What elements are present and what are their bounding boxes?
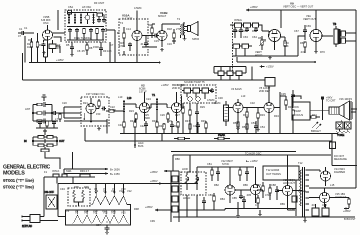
capacitor C13 (151, 34, 159, 38)
svg-text:R46: R46 (174, 124, 179, 128)
wire CRT grid (310, 98, 329, 120)
ground audio transformer (183, 37, 187, 41)
width coil box (330, 142, 336, 149)
svg-text:L15: L15 (330, 183, 335, 187)
svg-text:BRIGHT: BRIGHT (311, 129, 321, 133)
svg-text:R89: R89 (280, 202, 285, 206)
svg-text:OSC: OSC (43, 21, 49, 25)
svg-text:C28: C28 (180, 105, 185, 109)
value labels tuner area (18, 26, 114, 53)
dashed box tuner shield (65, 10, 106, 42)
wire bus to disc box (251, 67, 253, 81)
filter box B2 (227, 71, 233, 76)
wire string B feed (58, 216, 66, 218)
wire audio plate (162, 22, 184, 24)
tube V12A sync (225, 167, 235, 203)
svg-text:ON-OFF: ON-OFF (44, 190, 54, 194)
capacitor C33 vert (233, 27, 237, 38)
transformer T2 audio output (181, 24, 185, 39)
integrator box R32 (253, 23, 259, 27)
capacitor C9 below box (70, 42, 74, 57)
wire lattice feed down (45, 152, 73, 174)
junction dot AGC (134, 134, 144, 149)
pot R96 vert hold (194, 172, 199, 190)
wire video det drop (84, 128, 86, 141)
wire power verticals (44, 177, 73, 217)
wire video to peaking (84, 99, 99, 119)
svg-text:SOUND TRAP T5: SOUND TRAP T5 (184, 80, 205, 84)
capacitor C8 (101, 28, 105, 33)
integrator box R30 (234, 18, 242, 27)
B+ ladder (171, 171, 179, 222)
svg-text:1500: 1500 (110, 108, 116, 112)
svg-text:C97: C97 (96, 223, 101, 227)
label V15 (335, 192, 347, 199)
junction dots AC rail (49, 176, 93, 178)
svg-text:TRAP: TRAP (294, 109, 301, 113)
resistor R38 (304, 42, 306, 53)
svg-text:R47: R47 (185, 119, 190, 123)
svg-text:.005: .005 (246, 193, 252, 197)
svg-text:R18: R18 (167, 27, 172, 31)
svg-text:1ST VIDEO V11: 1ST VIDEO V11 (86, 92, 105, 96)
capacitor C2 (42, 40, 46, 57)
arrow +265 right (343, 207, 351, 213)
resistor R50a below disc (182, 103, 184, 134)
svg-text:T12: T12 (298, 161, 303, 165)
integrator box R31 (244, 23, 251, 27)
wire right frame (355, 10, 357, 188)
input filter top branch (33, 102, 52, 107)
svg-text:R68: R68 (300, 41, 305, 45)
svg-text:C45: C45 (167, 119, 172, 123)
B+ feed line 265 (64, 168, 120, 172)
svg-text:IN: IN (24, 139, 27, 143)
svg-text:.01: .01 (140, 42, 144, 46)
wire V13 plate to flyback (288, 191, 303, 211)
svg-text:V4: V4 (111, 189, 115, 193)
wire tuner out to bus (106, 30, 115, 40)
bus AGC y134 (120, 133, 265, 135)
transformer T13 flyback core (303, 167, 305, 217)
flyback secondary taps (306, 170, 310, 210)
ground vert out (314, 50, 318, 54)
svg-text:+265V: +265V (150, 179, 158, 183)
wire V15B plate lead (47, 25, 49, 47)
tube V14 damper (321, 167, 331, 186)
svg-text:R5: R5 (66, 43, 70, 47)
value labels vert section (234, 24, 325, 54)
ground mixer (42, 51, 46, 55)
resistor R70 (123, 120, 125, 134)
tube V3 (157, 92, 182, 121)
wire video box drop (106, 119, 108, 134)
transformer T3 vert output (333, 22, 356, 47)
resistor R100 (257, 182, 264, 198)
svg-text:R23: R23 (129, 109, 134, 113)
resistor R40 (59, 113, 61, 122)
svg-text:C69: C69 (306, 24, 311, 28)
svg-text:R52: R52 (242, 125, 247, 129)
svg-text:FOCUS: FOCUS (294, 113, 303, 117)
trim core 2 (196, 97, 201, 102)
wire disc internals (182, 88, 212, 99)
ground flyback (303, 217, 307, 223)
capacitor C60 (38, 120, 42, 125)
svg-text:270: 270 (176, 27, 181, 31)
resistor R5 box (97, 13, 103, 16)
wire HV line (309, 187, 356, 189)
resistor R1 (28, 38, 33, 63)
resistor R90 (80, 174, 90, 177)
tube V10B audio out (157, 24, 167, 47)
svg-text:V10: V10 (119, 189, 124, 193)
resistor R78 (246, 121, 248, 134)
wire hold feeds (187, 155, 212, 172)
svg-text:HOLD: HOLD (255, 53, 262, 57)
box drive control (292, 196, 297, 202)
svg-text:ION: ION (294, 105, 299, 109)
wire grid to box (53, 10, 66, 42)
label heater row2 (75, 211, 126, 215)
svg-text:C: C (255, 203, 257, 207)
resistor R102 (257, 195, 259, 209)
wire antenna input (24, 36, 26, 63)
wire left frame vertical (22, 53, 24, 80)
bus horiz top y155 (173, 154, 331, 156)
resistor R36 (280, 37, 286, 56)
capacitor C90 (216, 167, 220, 181)
svg-text:R33: R33 (260, 113, 265, 117)
sound lattice network (24, 129, 65, 154)
capacitor C6 (97, 18, 101, 23)
wire yoke drop (331, 134, 333, 166)
dashed box hold controls (181, 172, 206, 195)
svg-text:R31: R31 (243, 113, 248, 117)
svg-text:R84: R84 (220, 197, 225, 201)
resistor R45 (135, 112, 137, 123)
resistor R7 (49, 40, 60, 53)
pot R95 horiz hold (184, 172, 189, 190)
svg-text:470K: 470K (265, 193, 271, 197)
svg-text:C48: C48 (193, 124, 198, 128)
svg-text:R49: R49 (201, 119, 206, 123)
value labels power area (44, 169, 155, 227)
svg-text:MODELS: MODELS (3, 170, 25, 176)
svg-text:+265V: +265V (343, 209, 351, 213)
ground vert (268, 56, 272, 60)
svg-text:R98: R98 (134, 207, 139, 211)
svg-text:R87: R87 (256, 183, 261, 187)
resistor R8 below box (86, 42, 93, 55)
arrow +265 feed (145, 205, 171, 211)
capacitor C93 (275, 186, 279, 200)
coil L11 (146, 93, 158, 120)
wire osc coupling (235, 190, 251, 196)
capacitor C71 (170, 121, 174, 134)
bus 133 right extension (265, 133, 338, 135)
svg-text:1M: 1M (27, 45, 31, 49)
arrow 265 ladder feed (150, 170, 171, 174)
capacitor C72 (196, 122, 200, 134)
coil L3 (80, 14, 82, 25)
svg-text:V15: V15 (121, 211, 126, 215)
svg-text:SW1: SW1 (66, 169, 72, 173)
svg-text:9T001 (“T” line): 9T001 (“T” line) (3, 178, 34, 183)
ground V4 (236, 121, 240, 131)
dashed line vert section left (232, 22, 234, 73)
svg-text:MEASURE: MEASURE (334, 157, 347, 161)
svg-text:R86: R86 (243, 183, 248, 187)
bus +265 top (246, 5, 356, 11)
svg-text:C7: C7 (110, 43, 114, 47)
resistor R80 (310, 116, 320, 118)
flyback primary winding (300, 170, 302, 206)
video line y141 (85, 140, 332, 142)
svg-text:V11: V11 (84, 209, 89, 213)
capacitor C42 (101, 107, 106, 111)
svg-text:.03: .03 (311, 203, 315, 207)
wire sync left vertical (172, 155, 174, 171)
svg-text:T12 HORIZ: T12 HORIZ (266, 168, 280, 172)
svg-text:R70: R70 (320, 50, 325, 54)
bus B+ y80 (23, 79, 263, 81)
wire boost junction (332, 165, 357, 167)
box heater group B (66, 210, 131, 225)
resistor R97 (211, 167, 213, 181)
svg-text:C40: C40 (118, 123, 123, 127)
svg-text:ANT: ANT (25, 107, 31, 111)
capacitor C7 (102, 18, 106, 23)
resistor box R63 (233, 44, 240, 48)
resistor R91 ballast (73, 190, 76, 201)
resistor R92 ballast (82, 190, 85, 201)
resistor R75 (189, 121, 191, 134)
resistor R54 (246, 108, 248, 134)
svg-text:V2: V2 (95, 189, 99, 193)
capacitor C4 (75, 28, 79, 33)
wire ballast bottoms (74, 199, 83, 207)
svg-text:R29: R29 (200, 105, 205, 109)
B+ feed line 135 (64, 172, 120, 176)
svg-text:R60: R60 (234, 29, 239, 33)
wire sync bus y167 (212, 166, 254, 168)
capacitor C96 (316, 204, 330, 217)
svg-text:V14: V14 (102, 209, 107, 213)
ground heater group (105, 221, 110, 234)
svg-text:V3: V3 (103, 189, 107, 193)
op tube V15B (41, 15, 53, 47)
heater chain row1 (91, 184, 128, 205)
svg-text:FINE TUNING: FINE TUNING (74, 36, 91, 40)
svg-text:C8 .05: C8 .05 (77, 49, 85, 53)
capacitor C88 (202, 197, 206, 210)
svg-text:C83: C83 (208, 193, 213, 197)
svg-text:HOLD: HOLD (183, 196, 190, 200)
svg-text:R62: R62 (252, 29, 257, 33)
wire damper feed (309, 170, 320, 172)
junction dots heater rail (61, 183, 166, 185)
svg-text:C42: C42 (140, 124, 145, 128)
svg-text:R21: R21 (83, 101, 88, 105)
capacitor C70 (144, 121, 148, 134)
svg-text:10K: 10K (284, 44, 289, 48)
resistor R2 (36, 33, 43, 63)
svg-text:R71: R71 (312, 113, 317, 117)
wire vert out plate (321, 35, 333, 37)
interlock box (62, 174, 67, 177)
wire vert section bottom (233, 55, 299, 57)
wire hold box drops (187, 195, 197, 217)
svg-text:INTLK: INTLK (52, 169, 60, 173)
mid bus y121 left (33, 120, 107, 122)
bus sync y62 right (237, 57, 316, 69)
svg-text:¼ 12AT7: ¼ 12AT7 (122, 17, 133, 21)
svg-text:4.5MC: 4.5MC (134, 6, 142, 10)
coil L13 boxed (224, 101, 229, 126)
svg-text:R61: R61 (243, 29, 248, 33)
svg-text:TO CRT: TO CRT (326, 99, 336, 103)
svg-text:C90: C90 (290, 207, 295, 211)
capacitor C94 (242, 196, 246, 209)
dashed box 1st video det (81, 97, 109, 126)
capacitor C40 (52, 111, 64, 115)
resistor R55 (256, 108, 260, 132)
resistor R99 (213, 193, 215, 208)
svg-text:B+ 135V: B+ 135V (110, 172, 120, 176)
svg-text:C26: C26 (160, 113, 165, 117)
svg-text:R17: R17 (148, 23, 153, 27)
capacitor C50c below disc (195, 103, 199, 134)
wire filter rails (32, 105, 53, 122)
svg-text:YOKE: YOKE (337, 133, 344, 137)
svg-text:B+ 265V: B+ 265V (110, 168, 120, 172)
cluster on B+ bus caps (214, 66, 246, 81)
wire tuner bottom rail (67, 39, 104, 41)
svg-text:L10: L10 (118, 95, 123, 99)
capacitor C12 below box (99, 42, 103, 56)
tube V12B horiz osc (251, 167, 261, 203)
svg-text:V9: V9 (75, 209, 79, 213)
svg-text:C67: C67 (294, 29, 299, 33)
svg-text:INTEG: INTEG (234, 18, 242, 22)
resistor R71 (134, 118, 136, 134)
svg-text:OUT TRANS: OUT TRANS (266, 172, 281, 176)
contrast chain resistor (292, 110, 294, 134)
svg-text:DAMPER: DAMPER (334, 170, 345, 174)
svg-text:R34: R34 (274, 114, 279, 118)
resistor R74 (177, 121, 179, 134)
resistor R42 (98, 101, 100, 109)
resistor R11 (151, 24, 155, 38)
svg-text:V13: V13 (93, 209, 98, 213)
wire AC line rail (44, 176, 95, 178)
svg-text:SPKR: SPKR (192, 37, 199, 41)
svg-text:117V AC: 117V AC (22, 224, 32, 228)
peaking coil L14 (174, 137, 190, 139)
svg-text:DRIVE: DRIVE (298, 189, 306, 193)
svg-text:L8 OSC: L8 OSC (82, 5, 91, 9)
svg-text:R93 4.7: R93 4.7 (80, 169, 90, 173)
svg-text:HOR: HOR (182, 167, 188, 171)
trap box 2 (193, 88, 200, 93)
box horiz trans label (263, 166, 299, 180)
svg-text:+265V: +265V (145, 205, 153, 209)
svg-text:C35: C35 (281, 92, 286, 96)
wire sound takeoff (117, 32, 119, 34)
svg-text:V16 10FP4: V16 10FP4 (339, 97, 353, 101)
capacitor C30 (245, 27, 249, 32)
dashed box ballast resistors (68, 188, 90, 206)
tube V13 horiz out (277, 155, 293, 205)
tube V5 video 2nd det (243, 86, 274, 134)
tube V9A vert out (310, 10, 322, 50)
wire horiz out plate vertical (295, 180, 297, 216)
wire heater rail (58, 183, 198, 185)
capacitor C3 (68, 28, 72, 33)
coil L1 (68, 11, 72, 24)
pot arrows brightness (312, 122, 321, 129)
label heater row1 (94, 187, 126, 191)
dashed box sound discriminator (181, 85, 216, 103)
resistor R72 (156, 120, 158, 134)
svg-text:C64: C64 (252, 35, 257, 39)
bus AGC top-left y62 (29, 58, 160, 63)
fuse box (53, 174, 59, 177)
capacitor C1 (18, 27, 34, 35)
tube V15 HV rect (309, 188, 330, 207)
coil L2 (74, 14, 76, 25)
svg-text:+135V: +135V (56, 58, 64, 62)
wire mid bottom bus y208 (179, 208, 296, 210)
wire sound tubes drop (124, 47, 137, 63)
svg-text:VERT OUT: VERT OUT (303, 17, 316, 21)
value labels mid bus (118, 119, 265, 129)
capacitor C31 (254, 27, 258, 32)
svg-text:C1: C1 (19, 27, 23, 31)
svg-text:+265V: +265V (250, 5, 258, 9)
svg-text:C53: C53 (251, 121, 256, 125)
ground video box (97, 127, 101, 131)
resistor R77 (237, 121, 239, 134)
resistor R12 (172, 29, 176, 44)
coil L10 (120, 96, 132, 120)
cluster below left caps (36, 120, 58, 128)
tube V10A (132, 11, 142, 52)
wire V3 plate (181, 96, 183, 108)
svg-text:4.5MC: 4.5MC (213, 101, 221, 105)
svg-text:R1: R1 (28, 38, 32, 42)
svg-text:C85: C85 (232, 196, 237, 200)
capacitor C35 (303, 25, 307, 40)
ground sync (236, 202, 240, 218)
svg-text:150: 150 (96, 112, 101, 116)
junction dots tuner (74, 26, 99, 27)
wire V10A out (142, 36, 157, 48)
svg-text:R43: R43 (152, 119, 157, 123)
resistor R101 (269, 184, 271, 200)
input filter mid branch (33, 111, 52, 116)
svg-text:OUT: OUT (59, 139, 65, 143)
svg-text:V4 6AG5: V4 6AG5 (231, 87, 242, 91)
svg-text:470K: 470K (119, 44, 125, 48)
value labels crt area (312, 113, 317, 117)
capacitor C11 (144, 41, 148, 46)
svg-text:1ST IF: 1ST IF (139, 90, 147, 94)
svg-text:C63: C63 (243, 35, 248, 39)
svg-text:RF UNIT: RF UNIT (94, 1, 105, 5)
capacitor C92 (239, 194, 243, 199)
